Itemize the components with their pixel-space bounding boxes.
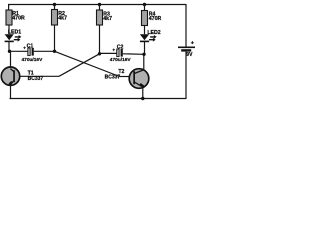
resistor R1: [6, 10, 25, 25]
svg-text:470R: 470R: [149, 16, 162, 22]
node C2 (R3 / C2 / T1-base junction): [98, 52, 101, 55]
wire diagonal node B2 to T2 base: [55, 51, 120, 76]
wire bottom rail 0V: [10, 98, 187, 100]
node E (T2 emitter at rail): [141, 97, 144, 100]
resistor R2: [52, 10, 68, 26]
wire R1 to LED1: [8, 25, 10, 34]
node B on top rail: [53, 3, 56, 6]
svg-text:LED2: LED2: [147, 30, 160, 36]
svg-text:9V: 9V: [186, 52, 193, 58]
svg-text:470R: 470R: [12, 16, 25, 22]
transistor T1 BC337: [1, 67, 43, 86]
node D on top rail: [143, 3, 146, 6]
wire rail to R3: [99, 5, 101, 11]
wire R3 to node C2: [99, 25, 101, 54]
svg-text:470u/16V: 470u/16V: [22, 57, 44, 63]
wire LED2 to node D2: [144, 42, 146, 54]
resistor R3: [97, 10, 113, 25]
wire top rail +9V: [8, 4, 186, 6]
resistor R4: [142, 11, 162, 26]
wire node A to T1 collector: [10, 51, 12, 69]
svg-text:+: +: [112, 48, 115, 53]
svg-text:4k7: 4k7: [58, 16, 67, 22]
wire LED1 to node A: [8, 42, 10, 51]
wire R2 to node B2: [54, 25, 56, 51]
wire node A to C1 left plate: [10, 50, 28, 52]
svg-text:4k7: 4k7: [103, 16, 112, 22]
wire T1 emitter to bottom rail: [10, 85, 12, 99]
svg-text:+: +: [23, 46, 26, 51]
wire T2 base horizontal: [120, 76, 134, 78]
node B2 (C1 / R2 / T2-base junction): [53, 50, 56, 53]
wire node C2 to C2 left plate: [100, 52, 117, 54]
wire R4 to LED2: [144, 26, 146, 35]
svg-text:+: +: [191, 41, 194, 47]
LED2: [140, 30, 161, 42]
wire diagonal node C2 to T1 base: [59, 54, 100, 77]
wire rail to R2: [54, 5, 56, 11]
wire battery - to bottom rail: [185, 52, 187, 99]
svg-text:BC337: BC337: [105, 75, 121, 81]
battery BT1 9V: [178, 41, 195, 58]
capacitor C2 470u/16V: [110, 44, 132, 63]
node D2 (LED2 / C2 / T2 collector junction): [142, 53, 145, 56]
transistor T2 BC337: [105, 69, 149, 89]
wire C2 right plate to node D2: [123, 53, 144, 56]
wire C1 right plate to node B2: [34, 50, 55, 52]
wire rail to R1: [8, 4, 10, 11]
svg-text:BC337: BC337: [28, 76, 44, 82]
wire T1 base horizontal: [15, 75, 59, 77]
node A (T1 collector junction): [8, 50, 11, 53]
wire T2 emitter to bottom rail: [142, 87, 144, 99]
wire rail to battery +: [185, 4, 187, 47]
svg-text:470u/16V: 470u/16V: [110, 57, 132, 63]
LED1: [5, 30, 22, 43]
wire rail to R4: [144, 5, 146, 11]
wire node D2 to T2 collector: [143, 54, 145, 70]
node C on top rail: [98, 3, 101, 6]
capacitor C1 470u/16V: [22, 43, 44, 62]
